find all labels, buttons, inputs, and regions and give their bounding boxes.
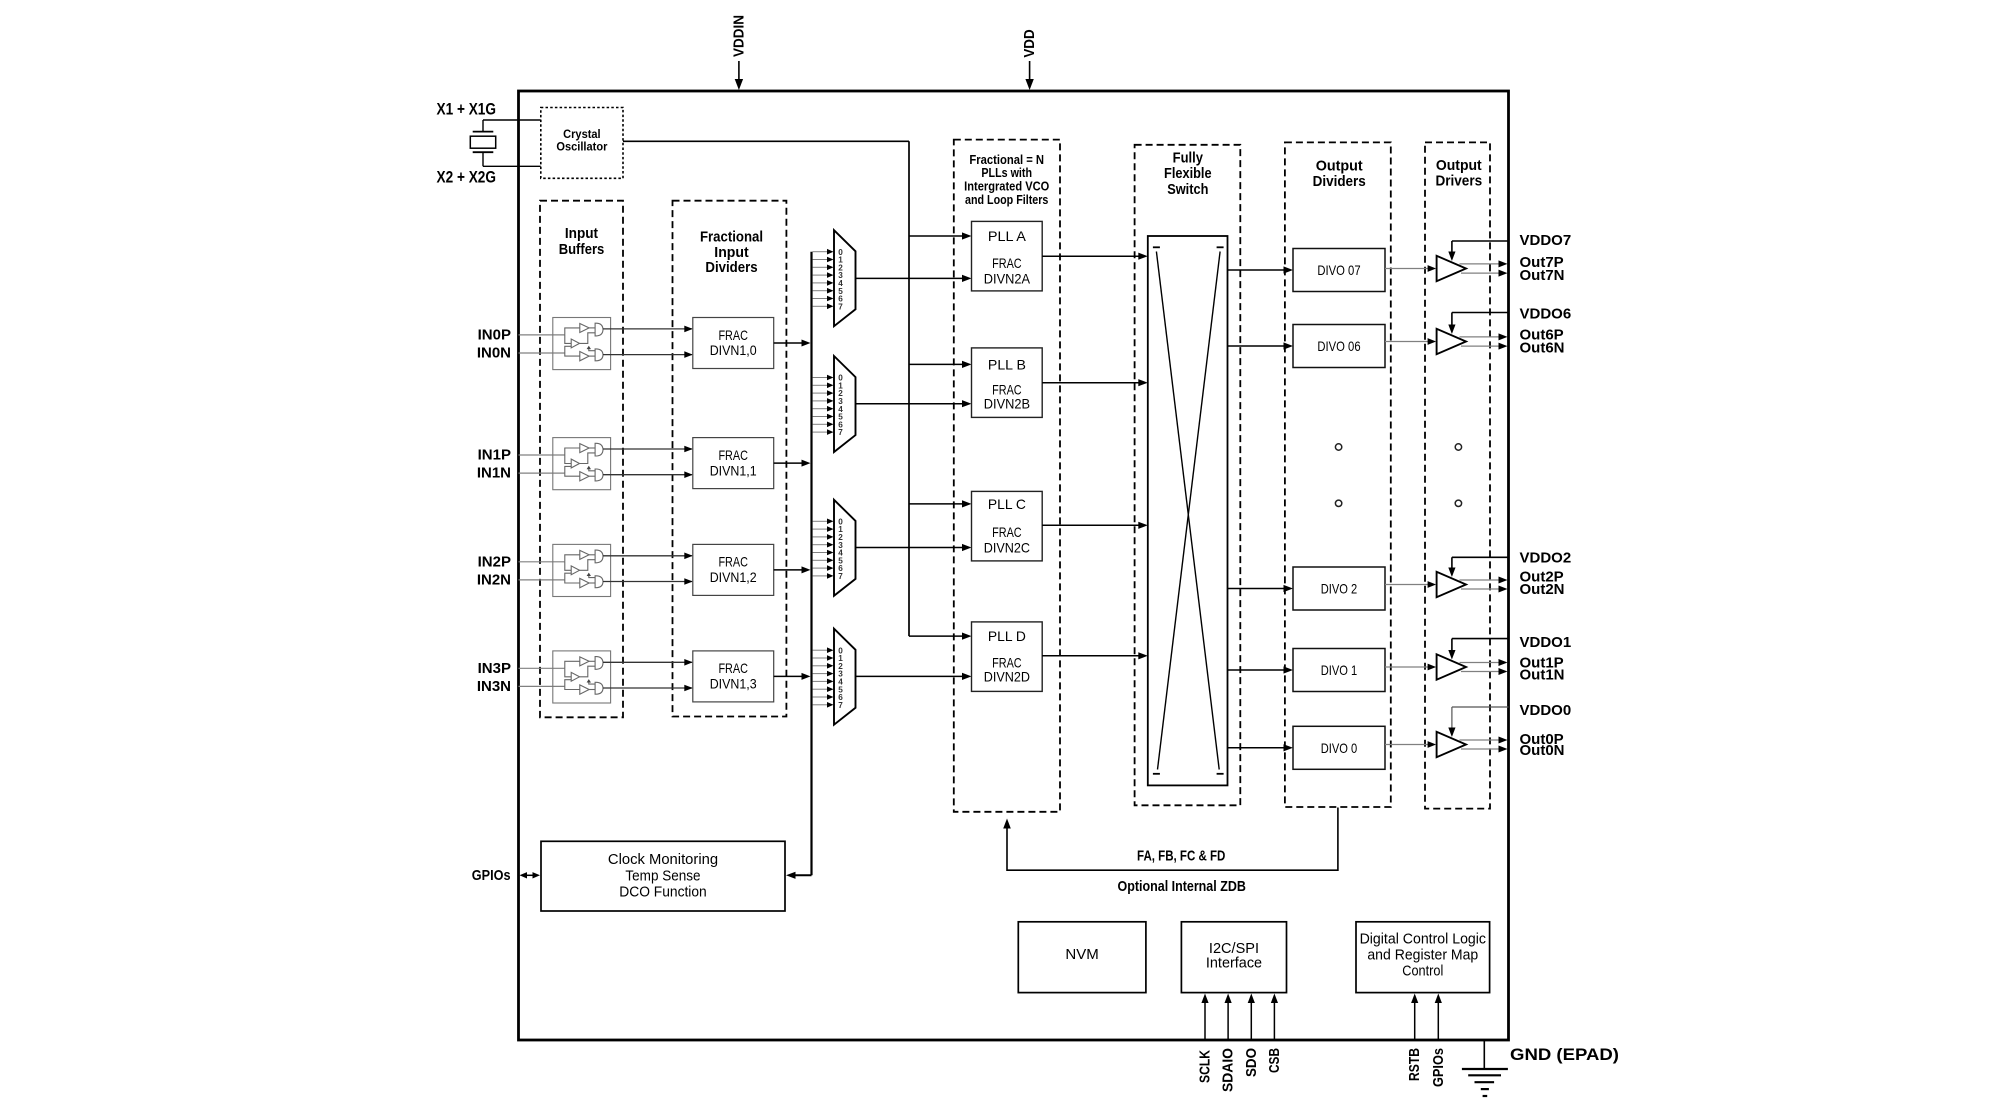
crossbar tick top-right (1217, 246, 1224, 248)
svg-text:7: 7 (838, 572, 843, 581)
svg-text:Output: Output (1436, 157, 1482, 174)
output divider DIVO 2 (1293, 567, 1385, 610)
wire switch output to DIVO 0 (1228, 747, 1285, 749)
wire IN3P input (519, 667, 565, 669)
svg-text:PLL D: PLL D (988, 628, 1026, 644)
svg-text:Fully: Fully (1173, 149, 1204, 166)
crossbar diagonal 1 (1156, 252, 1219, 770)
wire Out1P output (1460, 662, 1500, 664)
wire mux 1 input 3 (813, 400, 829, 402)
svg-text:FRAC: FRAC (992, 524, 1022, 540)
svg-text:VDDO1: VDDO1 (1520, 634, 1572, 651)
svg-text:FRAC: FRAC (718, 447, 748, 463)
wire Out2P output (1460, 579, 1500, 581)
wire mux 3 input 6 (813, 696, 829, 698)
fractional input divider FRAC DIVN1,0 (693, 318, 774, 369)
wire X2 lead (482, 152, 484, 166)
fractional input divider FRAC DIVN1,3 (693, 651, 774, 702)
wire buffer 1 output P (603, 448, 692, 450)
PLL C block (PLL + FRAC DIVN2C) (972, 491, 1043, 561)
wire X1 lead (482, 120, 484, 132)
wire mux 0 input 2 (813, 266, 829, 268)
svg-text:IN3P: IN3P (478, 660, 511, 677)
wire VDD supply into chip (1029, 61, 1031, 82)
svg-text:SCLK: SCLK (1197, 1050, 1214, 1083)
wire PLL D output to switch (1042, 655, 1139, 657)
svg-text:DIVN2B: DIVN2B (984, 396, 1030, 412)
svg-text:Clock Monitoring: Clock Monitoring (608, 852, 718, 868)
fractional input dividers section box (673, 201, 787, 717)
svg-text:IN1N: IN1N (477, 465, 511, 482)
wire mux 3 output to PLL D (856, 675, 963, 677)
wire switch output to DIVO 2 (1228, 588, 1285, 590)
wire mux 0 input 5 (813, 290, 829, 292)
mux 0 (8:1 input select) (834, 230, 856, 326)
wire Out0N output (1461, 748, 1500, 750)
svg-text:FRAC: FRAC (718, 554, 748, 570)
svg-text:FRAC: FRAC (718, 660, 748, 676)
svg-text:Buffers: Buffers (559, 241, 605, 258)
svg-text:GPIOs: GPIOs (472, 867, 511, 884)
svg-text:VDD: VDD (1021, 29, 1038, 57)
svg-text:and Loop Filters: and Loop Filters (965, 192, 1048, 207)
wire VDDO0 supply (1452, 706, 1509, 708)
svg-text:7: 7 (838, 302, 843, 311)
svg-text:Switch: Switch (1167, 181, 1208, 198)
input buffer cell 1 (553, 438, 611, 490)
wire RSTB input (1414, 1000, 1416, 1039)
wire switch output to DIVO 1 (1228, 669, 1285, 671)
wire mux 3 input 7 (813, 704, 829, 706)
wire DIVO 0 to output driver (1385, 744, 1429, 746)
wire mux 0 input 1 (813, 259, 829, 261)
wire VDDO2 supply (1452, 556, 1509, 558)
svg-text:DIVN1,1: DIVN1,1 (710, 462, 757, 478)
wire buffer 2 output P (603, 555, 692, 557)
svg-text:Drivers: Drivers (1435, 173, 1482, 190)
wire mux 2 input 2 (813, 536, 829, 538)
svg-text:Out2N: Out2N (1520, 581, 1565, 598)
wire mux 3 input 0 (813, 649, 829, 651)
wire mux 0 input 3 (813, 274, 829, 276)
crossbar diagonal 2 (1158, 252, 1221, 770)
wire Out1N output (1461, 671, 1500, 673)
svg-text:Out1N: Out1N (1520, 667, 1565, 684)
wire mux 3 input 1 (813, 657, 829, 659)
svg-text:IN3N: IN3N (477, 678, 511, 695)
wire VDDO7 supply (1452, 240, 1509, 242)
ground GND (EPAD) (1483, 1040, 1485, 1069)
input buffer cell 2 (553, 544, 611, 596)
ellipsis dots output drivers column (1455, 444, 1461, 450)
svg-text:Control: Control (1402, 963, 1443, 979)
output driver 2 buffer (1437, 572, 1466, 597)
wire DIVO 6 to output driver (1385, 341, 1429, 343)
wire CSB input (1273, 1000, 1275, 1039)
fractional input divider FRAC DIVN1,1 (693, 438, 774, 489)
wire Out6P output (1460, 336, 1500, 338)
wire mux 3 input 5 (813, 688, 829, 690)
svg-text:Optional Internal ZDB: Optional Internal ZDB (1118, 878, 1246, 895)
chip boundary U1 outline (519, 91, 1509, 1040)
wire FRAC DIVN1,1 output to bus (774, 462, 803, 464)
svg-text:IN0P: IN0P (478, 326, 511, 343)
wire mux 1 input 1 (813, 384, 829, 386)
wire bus to clock monitoring (794, 874, 812, 876)
wire SDO input (1250, 1000, 1252, 1039)
wire buffer 3 output N (603, 687, 692, 689)
wire GPIOs input (1437, 1000, 1439, 1039)
wire Out2N output (1461, 588, 1500, 590)
wire input selection bus (810, 252, 812, 876)
svg-text:Crystal: Crystal (563, 129, 601, 141)
input buffer cell 0 (553, 318, 611, 370)
svg-text:DIVO 0: DIVO 0 (1321, 740, 1358, 756)
wire IN1P input (519, 454, 565, 456)
PLL B block (PLL + FRAC DIVN2B) (972, 348, 1043, 418)
wire mux 1 input 7 (813, 431, 829, 433)
svg-text:FRAC: FRAC (718, 327, 748, 343)
wire mux 2 input 7 (813, 575, 829, 577)
wire PLL C output to switch (1042, 524, 1139, 526)
svg-text:FA, FB, FC & FD: FA, FB, FC & FD (1137, 848, 1225, 865)
wire Out6N output (1461, 345, 1500, 347)
svg-text:GPIOs: GPIOs (1430, 1048, 1447, 1087)
svg-text:7: 7 (838, 701, 843, 710)
svg-text:DIVN2D: DIVN2D (984, 668, 1030, 684)
wire DIVO 2 to output driver (1385, 584, 1429, 586)
wire buffer 2 output N (603, 581, 692, 583)
wire DIVO 1 to output driver (1385, 666, 1429, 668)
svg-text:I2C/SPI: I2C/SPI (1209, 941, 1259, 957)
wire mux 2 input 3 (813, 544, 829, 546)
output divider DIVO 6 (1293, 325, 1385, 368)
svg-text:Input: Input (565, 225, 598, 242)
wire IN1N input (519, 472, 565, 474)
svg-text:Interface: Interface (1206, 956, 1262, 972)
svg-text:VDDIN: VDDIN (730, 15, 747, 57)
output driver 0 buffer (1437, 732, 1466, 757)
wire buffer 0 output P (603, 328, 692, 330)
wire PLL B output to switch (1042, 382, 1139, 384)
wire reference to PLL B (909, 363, 963, 365)
wire mux 0 input 0 (813, 251, 829, 253)
wire reference to PLL A (909, 235, 963, 237)
I2C/SPI interface block (1181, 922, 1286, 993)
wire PLL A output to switch (1042, 255, 1139, 257)
svg-text:DIVO 07: DIVO 07 (1317, 262, 1360, 278)
svg-text:Out7N: Out7N (1520, 267, 1565, 284)
svg-text:DCO Function: DCO Function (619, 885, 707, 901)
svg-text:DIVO 06: DIVO 06 (1317, 338, 1360, 354)
wire buffer 0 output N (603, 354, 692, 356)
wire IN3N input (519, 685, 565, 687)
wire mux 2 input 5 (813, 559, 829, 561)
svg-text:Digital Control Logic: Digital Control Logic (1360, 931, 1486, 947)
wire mux 2 input 1 (813, 528, 829, 530)
wire mux 1 input 6 (813, 423, 829, 425)
wire GPIOs bidirectional (524, 874, 536, 876)
wire VDDO6 supply (1452, 312, 1509, 314)
input buffer cell 3 (553, 651, 611, 703)
wire mux 0 input 6 (813, 298, 829, 300)
output divider DIVO 7 (1293, 249, 1385, 292)
wire IN0P input (519, 334, 565, 336)
wire FRAC DIVN1,2 output to bus (774, 569, 803, 571)
PLL D block (PLL + FRAC DIVN2D) (972, 622, 1043, 692)
wire buffer 1 output N (603, 474, 692, 476)
svg-text:Dividers: Dividers (1313, 173, 1366, 190)
wire VDDO1 supply (1452, 638, 1509, 640)
svg-text:DIVN1,3: DIVN1,3 (710, 676, 757, 692)
svg-text:FRAC: FRAC (992, 255, 1022, 271)
output driver 1 buffer (1437, 654, 1466, 679)
svg-text:IN2P: IN2P (478, 553, 511, 570)
crystal Y1 (470, 132, 495, 153)
crystal oscillator block (541, 108, 623, 179)
wire mux 2 input 0 (813, 520, 829, 522)
output driver 6 buffer (1437, 329, 1466, 354)
clock monitoring / temp sense / DCO block (541, 841, 785, 911)
svg-text:IN1P: IN1P (478, 447, 511, 464)
output divider DIVO 1 (1293, 649, 1385, 692)
svg-text:SDO: SDO (1243, 1048, 1260, 1077)
svg-text:IN0N: IN0N (477, 345, 511, 362)
ellipsis dots output dividers column (1335, 444, 1341, 450)
svg-text:IN2N: IN2N (477, 571, 511, 588)
wire Out0P output (1460, 739, 1500, 741)
svg-text:DIVO 2: DIVO 2 (1321, 581, 1358, 597)
wire FRAC DIVN1,0 output to bus (774, 342, 803, 344)
wire SCLK input (1204, 1000, 1206, 1039)
svg-text:Oscillator: Oscillator (556, 141, 607, 153)
wire mux 2 input 4 (813, 552, 829, 554)
svg-text:Out0N: Out0N (1520, 742, 1565, 759)
svg-text:VDDO6: VDDO6 (1520, 306, 1572, 323)
svg-text:Fractional: Fractional (700, 228, 763, 245)
wire DIVO 7 to output driver (1385, 268, 1429, 270)
PLL A block (PLL + FRAC DIVN2A) (972, 221, 1043, 291)
wire IN2P input (519, 561, 565, 563)
svg-text:PLL A: PLL A (988, 228, 1027, 244)
mux 3 (8:1 input select) (834, 629, 856, 725)
svg-text:7: 7 (838, 428, 843, 437)
wire crystal oscillator output (623, 140, 909, 142)
wire mux 0 output to PLL A (856, 277, 963, 279)
wire SDAIO input (1227, 1000, 1229, 1039)
svg-text:NVM: NVM (1065, 947, 1098, 963)
fully flexible switch crossbar block (1148, 236, 1228, 785)
svg-text:PLL B: PLL B (988, 356, 1026, 372)
wire mux 3 input 3 (813, 673, 829, 675)
wire mux 1 input 2 (813, 392, 829, 394)
svg-text:DIVN1,0: DIVN1,0 (710, 342, 757, 358)
svg-text:Dividers: Dividers (705, 259, 757, 276)
wire mux 1 input 4 (813, 408, 829, 410)
wire mux 2 output to PLL C (856, 547, 963, 549)
crossbar tick top-left (1153, 246, 1160, 248)
svg-text:SDAIO: SDAIO (1220, 1048, 1237, 1092)
wire mux 3 input 2 (813, 665, 829, 667)
output driver 7 buffer (1437, 256, 1466, 281)
svg-text:Flexible: Flexible (1164, 165, 1212, 182)
wire Out7P output (1460, 263, 1500, 265)
digital control logic block (1356, 922, 1490, 993)
mux 2 (8:1 input select) (834, 500, 856, 596)
crossbar tick bottom-left (1153, 773, 1160, 775)
output dividers section box (1285, 142, 1391, 807)
svg-text:VDDO7: VDDO7 (1520, 232, 1572, 249)
fractional input divider FRAC DIVN1,2 (693, 544, 774, 595)
svg-text:PLL C: PLL C (988, 496, 1026, 512)
wire switch output to DIVO 6 (1228, 345, 1285, 347)
svg-text:and Register Map: and Register Map (1367, 948, 1478, 964)
wire mux 1 input 0 (813, 377, 829, 379)
svg-text:DIVN1,2: DIVN1,2 (710, 569, 757, 585)
output divider DIVO 0 (1293, 726, 1385, 769)
wire FA FB FC FD feedback (1007, 808, 1338, 871)
wire FRAC DIVN1,3 output to bus (774, 675, 803, 677)
wire buffer 3 output P (603, 661, 692, 663)
mux 1 (8:1 input select) (834, 356, 856, 452)
svg-text:GND (EPAD): GND (EPAD) (1510, 1045, 1619, 1064)
wire IN0N input (519, 352, 565, 354)
wire IN2N input (519, 579, 565, 581)
input buffers section box (540, 201, 623, 718)
wire mux 1 input 5 (813, 416, 829, 418)
svg-text:RSTB: RSTB (1406, 1048, 1423, 1081)
wire reference to PLL C (909, 503, 963, 505)
wire mux 2 input 6 (813, 567, 829, 569)
wire Out7N output (1461, 272, 1500, 274)
svg-text:DIVN2C: DIVN2C (984, 540, 1030, 556)
svg-text:VDDO2: VDDO2 (1520, 549, 1572, 566)
crossbar tick bottom-right (1217, 773, 1224, 775)
svg-text:X1 + X1G: X1 + X1G (437, 100, 497, 118)
wire mux 0 input 7 (813, 305, 829, 307)
wire mux 0 input 4 (813, 282, 829, 284)
fractional PLLs section box (954, 140, 1060, 812)
svg-text:Temp Sense: Temp Sense (625, 868, 700, 884)
svg-text:CSB: CSB (1266, 1048, 1283, 1073)
wire mux 3 input 4 (813, 680, 829, 682)
fully flexible switch section box (1135, 145, 1241, 806)
wire reference distribution vertical (908, 141, 910, 636)
svg-text:Out6N: Out6N (1520, 340, 1565, 357)
svg-text:DIVN2A: DIVN2A (984, 270, 1031, 286)
svg-text:VDDO0: VDDO0 (1520, 702, 1572, 719)
svg-text:DIVO 1: DIVO 1 (1321, 662, 1358, 678)
wire VDDIN supply into chip (738, 61, 740, 82)
svg-text:X2 + X2G: X2 + X2G (437, 169, 497, 187)
NVM block (1018, 922, 1146, 993)
wire reference to PLL D (909, 635, 963, 637)
wire mux 1 output to PLL B (856, 403, 963, 405)
wire switch output to DIVO 7 (1228, 269, 1285, 271)
output drivers section box (1425, 142, 1490, 808)
